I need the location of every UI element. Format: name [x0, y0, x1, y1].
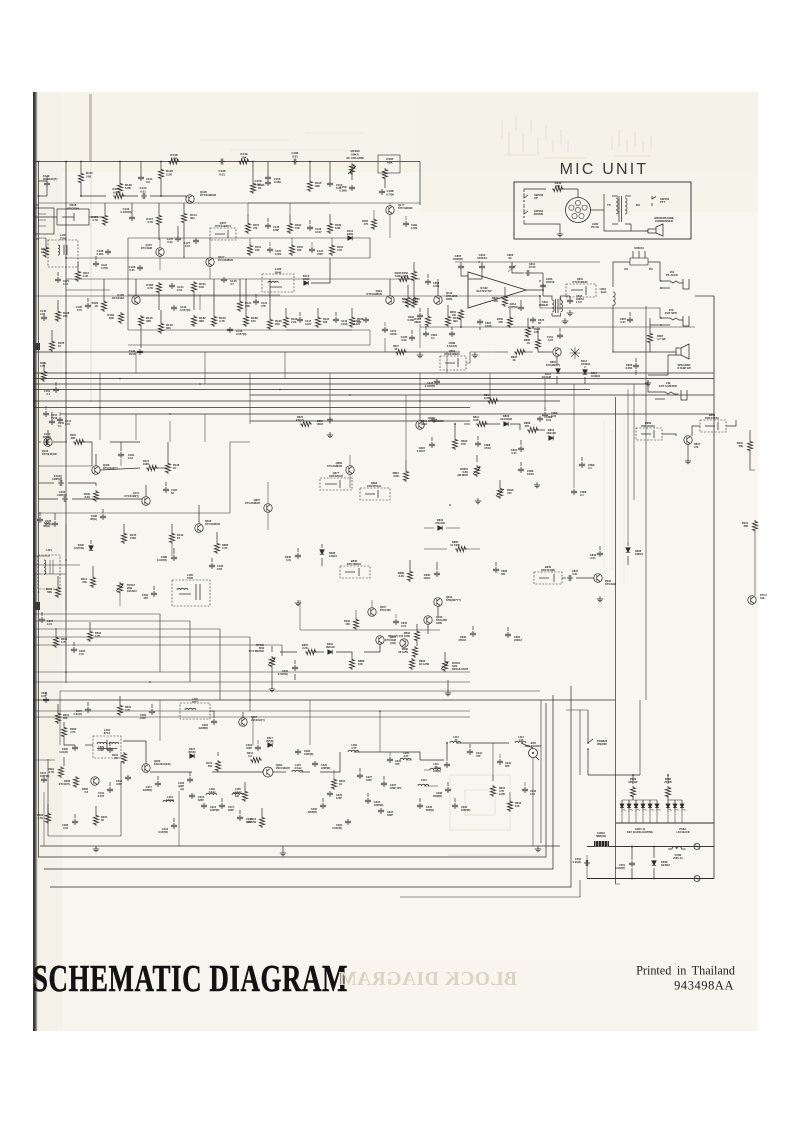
wire led feed [588, 774, 640, 776]
wire horizontal bus line y395 [250, 394, 714, 396]
capacitor C138 0.001 [105, 249, 111, 255]
svg-text:C4286P(H): C4286P(H) [45, 520, 52, 526]
wire rf in [45, 692, 47, 696]
resistor R313 120 [242, 790, 247, 802]
trimmer RV401 FM DEV [117, 582, 122, 594]
svg-text:L1065846: L1065846 [275, 267, 282, 274]
resistor R805 1K [514, 349, 526, 354]
box B809 KRC114S dashed [636, 428, 662, 440]
svg-text:C839470/16: C839470/16 [458, 635, 466, 642]
wire lower bus 2 [34, 681, 470, 683]
resistor R304b 4.7K [53, 636, 58, 648]
wire staircase bus 4 [34, 637, 250, 711]
capacitor C842 0.01 [597, 551, 603, 557]
svg-text:C316620P: C316620P [198, 796, 205, 802]
diode D800 A1244GR [504, 422, 508, 426]
svg-text:D1111N60: D1111N60 [347, 229, 354, 236]
wire nested outline 4 [400, 880, 580, 897]
transistor Q815 KTA1266 tx [368, 608, 376, 616]
ground rf chain [535, 846, 541, 852]
wire top extra drops [119, 162, 121, 183]
wire am mod mesh [419, 414, 421, 421]
wire left edge parts [51, 330, 53, 340]
svg-text:L4065796: L4065796 [187, 573, 194, 580]
capacitor C410 10/16 [43, 411, 49, 417]
connector J106 PLUG [566, 198, 591, 223]
capacitor C154 0.01 [557, 333, 563, 339]
wire row4 bus [34, 351, 460, 353]
wire nested outline 3 [50, 686, 571, 887]
capacitor C126 0.047 [307, 225, 313, 231]
svg-text:R3094.7K: R3094.7K [37, 814, 44, 820]
inductor L302 8771 dashed [180, 703, 210, 719]
resistor R310 100 [121, 752, 126, 764]
resistor R808 47K [527, 427, 539, 432]
wire horizontal bus line y421 [250, 420, 470, 422]
wire power box inner vertical [579, 710, 581, 775]
svg-text:C1470.047: C1470.047 [305, 319, 312, 326]
svg-text:C1360.01: C1360.01 [218, 169, 226, 176]
wire tx s meter mesh [271, 668, 273, 686]
inductor L313 1.5T [515, 741, 526, 743]
wire rf long rows [59, 691, 61, 745]
resistor R486 22 1W [665, 786, 670, 798]
capacitor C838 16/16 [518, 467, 524, 473]
wire opamp out [526, 289, 543, 291]
resistor R167 68K [382, 168, 387, 180]
capacitor C122 4.7/50 [93, 261, 99, 267]
resistor R118 2.2K [75, 270, 80, 282]
inductor L307 [292, 770, 303, 772]
wire rf enclosure right edge [540, 700, 542, 843]
capacitor C502 0.01(D) [584, 860, 590, 866]
wire power bottom mesh [631, 847, 633, 861]
capacitor C152 0.1 [53, 387, 59, 393]
capacitor C333 330P(D) [378, 808, 384, 814]
box Q811 KTC3198 dashed [566, 284, 596, 297]
diode D112 1N4148 [556, 369, 560, 373]
capacitor C481 47P [151, 591, 157, 597]
resistor R187 4.7K [102, 214, 107, 226]
capacitor C304 220P [211, 719, 217, 725]
capacitor C839 470/16 [470, 631, 476, 637]
svg-text:C81147/16: C81147/16 [529, 262, 536, 269]
capacitor C131 47P [253, 299, 259, 305]
ground opamp input [417, 352, 423, 358]
wire row3 extra [103, 279, 105, 300]
node junction on top bus [65, 161, 67, 163]
resistor R232 15K [353, 618, 358, 630]
resistor R729 820 1W [630, 786, 635, 798]
resistor R180 15K [405, 296, 410, 308]
transistor Q408 KTC3194 [92, 466, 100, 474]
wire left mid parts [39, 512, 41, 516]
svg-text:L3094.5T: L3094.5T [403, 752, 409, 758]
wire staircase bus 2 [34, 621, 190, 682]
svg-text:TX: TX [607, 203, 611, 207]
wire horizontal bus line y373 [34, 372, 714, 374]
capacitor C139 input [44, 181, 50, 187]
capacitor C141 0.01 [169, 283, 175, 289]
resistor R807 4.7 1W [647, 332, 652, 344]
transistor Q102 KTC3198 [156, 248, 164, 256]
capacitor C314 0.047(D) [171, 823, 177, 829]
svg-text:C41010/16: C41010/16 [51, 414, 58, 420]
svg-text:SCHEMATIC DIAGRAM: SCHEMATIC DIAGRAM [33, 957, 348, 1000]
capacitor C312 100P [125, 775, 131, 781]
transistor Q104 KTC3198GR [186, 195, 194, 203]
resistor R311 560 [215, 760, 220, 772]
resistor R115 10K [78, 172, 83, 184]
capacitor C403 100P(D) [62, 496, 68, 502]
svg-text:R1474.7K: R1474.7K [146, 217, 153, 224]
svg-text:R1626.2K: R1626.2K [402, 271, 409, 278]
wire mid-right mesh [662, 434, 676, 436]
transistor Q813 KTA1266 [424, 616, 432, 624]
svg-text:C8: C8 [624, 267, 628, 271]
ground am mod cluster [534, 482, 540, 488]
resistor R120 4.7K [211, 315, 216, 327]
capacitor C422 6P [52, 521, 58, 527]
inductor L406 5796 shield box [172, 580, 210, 606]
capacitor C322 330P [237, 815, 243, 821]
capacitor C341 47P [467, 749, 473, 755]
svg-text:L310: L310 [421, 779, 427, 782]
wire bus vertical drops [99, 373, 101, 440]
wire rf row mid [34, 759, 55, 761]
resistor R301 56K [55, 712, 60, 724]
ghost bleed-through marks above MIC UNIT [502, 116, 651, 158]
inductor CH501 5RR36 [594, 841, 609, 847]
capacitor C328 100P(D) [295, 749, 301, 755]
svg-text:C1540.01: C1540.01 [547, 335, 554, 342]
transistor Q106 KTC3194 [132, 296, 140, 304]
resistor R816 6.8K [403, 470, 408, 482]
capacitor C484 0.01 [118, 452, 124, 458]
transistor Q302 [91, 777, 99, 785]
box Q802 KTC3198 dashed [440, 356, 466, 370]
wire meter driver mesh [446, 527, 460, 529]
wire second left vertical rail [65, 162, 67, 684]
svg-text:MICROPHONECONDENSER: MICROPHONECONDENSER [654, 216, 673, 223]
capacitor C834 220/16 [505, 632, 511, 638]
capacitor C806 0.001 [425, 279, 431, 285]
capacitor C337 220P 1KV [381, 781, 387, 787]
resistor R804 100 [458, 309, 463, 321]
svg-text:L3070.5uH: L3070.5uH [295, 764, 302, 770]
wire second row [89, 216, 105, 218]
transistor Q809 KTC3198 [346, 466, 354, 474]
microphone condenser symbol [645, 224, 663, 236]
capacitor C803 0.068 [417, 313, 423, 319]
wire led cathode rail [616, 822, 714, 824]
switch POWER ON/OFF [588, 738, 593, 753]
wire bottom power rail [587, 846, 714, 848]
capacitor C501 0.022(D) [629, 861, 635, 867]
svg-text:R1684.7K: R1684.7K [146, 283, 153, 290]
wire right column [613, 262, 630, 287]
transistor Q834 KTC3198GR [416, 421, 424, 429]
svg-text:C80410/16: C80410/16 [421, 419, 428, 426]
capacitor C137 0.01 [175, 236, 181, 242]
svg-text:C83616/16: C83616/16 [424, 573, 431, 580]
ghost vertical band mid right [604, 415, 624, 600]
capacitor C807 220P(D) [458, 264, 464, 270]
resistor R829 15K [502, 295, 507, 307]
scan crease line near left [89, 94, 92, 162]
resistor R814 6.8K [487, 398, 499, 403]
box MIC UNIT enclosure [514, 182, 691, 239]
wire opamp top rail [455, 261, 600, 263]
connector SV8013 C8-PA [630, 258, 648, 265]
inductor L311 3T [430, 768, 441, 770]
capacitor C147 0.047 [297, 317, 303, 323]
svg-text:D307BP(D): D307BP(D) [189, 748, 196, 754]
resistor R144 390 [181, 212, 186, 224]
svg-text:SW104DOWN: SW104DOWN [534, 209, 544, 216]
capacitor C897 0.0047 [429, 442, 435, 448]
capacitor C135 0.01 [409, 335, 415, 341]
svg-text:R15915K: R15915K [497, 317, 504, 324]
transformer T801 300B45 [556, 299, 559, 313]
wire left feed bus 2 [34, 564, 80, 566]
resistor R186 100 [349, 316, 354, 328]
wire upper-middle mesh [559, 328, 561, 332]
capacitor C438 0.047(D) [434, 379, 440, 385]
resistor R126 6.8K [113, 193, 125, 198]
resistor R163 390 [445, 315, 450, 327]
resistor R145 33K [138, 315, 143, 327]
svg-text:BLOCK DIAGRAM: BLOCK DIAGRAM [338, 969, 517, 990]
capacitor C809 0.1 [579, 462, 585, 468]
ground c884 [327, 432, 333, 438]
svg-text:R310100: R310100 [112, 754, 119, 760]
svg-text:D1101N60: D1101N60 [303, 274, 310, 281]
wire q104 links [120, 195, 138, 197]
svg-text:C1260.047: C1260.047 [315, 227, 322, 234]
svg-text:R8872.2K: R8872.2K [302, 643, 309, 650]
inductor L309 4.5T [400, 758, 411, 760]
resistor R304 4.7K [58, 766, 63, 778]
resistor R888 10K [349, 658, 354, 670]
wire rf bottom rail [40, 845, 560, 847]
resistor R413 56K [55, 586, 60, 598]
capacitor C127 0.01 [193, 238, 199, 244]
svg-text:C130100P: C130100P [273, 225, 280, 232]
transformer T101 mic [619, 196, 622, 222]
wire mid right rows [562, 577, 566, 579]
wire right rail top stub [695, 295, 714, 297]
svg-text:C327100P: C327100P [366, 776, 373, 782]
diode D405 10V zener [89, 546, 93, 550]
svg-text:C1500.022: C1500.022 [354, 320, 361, 326]
svg-text:C14310/16: C14310/16 [341, 319, 348, 326]
capacitor C428 6P [37, 517, 43, 523]
svg-text:C1290.01: C1290.01 [76, 305, 83, 312]
box B840 KRC113M dashed [534, 572, 562, 584]
capacitor C128 0.01 [137, 265, 143, 271]
svg-text:R8166.8K: R8166.8K [393, 471, 400, 478]
svg-text:L3131.5T: L3131.5T [518, 736, 524, 742]
resistor R168 4.7K [156, 282, 161, 294]
wire power-section left vertical [615, 397, 617, 884]
wire bottom power return rail [587, 878, 714, 880]
svg-text:R8116.8K: R8116.8K [473, 415, 480, 422]
diode D501 1N4004 [652, 861, 656, 865]
wire mid vertical x634 [633, 384, 635, 500]
svg-text:D31?BP(D): D31?BP(D) [267, 737, 274, 743]
box Q896 KRC125GO dashed [320, 478, 352, 490]
resistor R887 2.2K [305, 649, 317, 654]
speaker SP 8 OHM 1W [676, 344, 689, 359]
svg-text:C322330P: C322330P [246, 818, 253, 824]
resistor R152 33K [289, 244, 294, 256]
diode D816 1N4148 [438, 526, 442, 530]
wire rf row top [63, 722, 65, 726]
transistor Q301 2SC2314 [239, 718, 247, 726]
svg-text:C312100P: C312100P [116, 780, 123, 786]
resistor R303 4.7K [61, 726, 66, 738]
resistor R836 68 1/2W [412, 646, 417, 658]
resistor R133 2.2K [283, 316, 288, 328]
trimmer RV203 1KB REGULATOR [442, 660, 447, 672]
svg-text:L302877?: L302877? [192, 698, 198, 704]
box B841 KRC12BGO dashed [340, 566, 370, 578]
svg-text:C8050.001: C8050.001 [626, 363, 633, 370]
diode D201 1N4148 [328, 650, 332, 654]
wire q801 mesh [538, 350, 552, 352]
capacitor C806 62 [509, 264, 515, 270]
wire left vertical rail [38, 162, 40, 858]
svg-text:C88410/16: C88410/16 [317, 419, 324, 426]
resistor R146 2.2K [158, 168, 163, 180]
wire staircase bus 3 [34, 629, 220, 700]
resistor R134 560 [315, 316, 320, 328]
wire horizontal bus line y384 [34, 383, 648, 385]
capacitor C412 0.01 [57, 417, 63, 423]
capacitor C830 561 [493, 567, 499, 573]
capacitor C327 100P [357, 773, 363, 779]
resistor R886 8.2K [407, 570, 412, 582]
transistor Q303 ESC2314 [142, 764, 150, 772]
wire q108 mesh [389, 203, 391, 206]
resistor R813 470 [497, 487, 502, 499]
capacitor C156 0.068 [265, 175, 271, 181]
svg-text:L401: L401 [46, 549, 52, 552]
ghost mirrored BLOCK DIAGRAM [338, 969, 517, 990]
svg-text:R8146.8K: R8146.8K [484, 393, 491, 400]
svg-text:R231680: R231680 [742, 521, 749, 528]
svg-text:R41410K: R41410K [81, 577, 88, 584]
svg-text:C1350.01: C1350.01 [401, 335, 408, 342]
coil L401 core [38, 555, 60, 589]
capacitor C121 0.01 [55, 277, 61, 283]
resistor R833 1K 1/2W [409, 658, 414, 670]
svg-text:R4098.2K: R4098.2K [84, 492, 91, 499]
wire lower bus 3 [34, 699, 615, 701]
inductor L104 2768 shield box [48, 240, 78, 267]
capacitor C807 0.01 [627, 317, 633, 323]
resistor R131 33K [237, 300, 242, 312]
resistor R433 68K [552, 186, 564, 191]
resistor R185 470 [371, 218, 376, 230]
inductor L310 2T [418, 784, 429, 786]
capacitor C317 620P [219, 803, 225, 809]
wire regulator mesh [437, 606, 439, 616]
wire staircase bus 1 [34, 614, 160, 672]
resistor R416 1K [169, 532, 174, 544]
capacitor C804 10/16 [431, 417, 437, 423]
wire topleft gap mesh [45, 238, 47, 246]
svg-text:C317620P: C317620P [228, 806, 235, 812]
resistor R184 6.8K [398, 276, 410, 281]
trimmer RV202 TX S METER [269, 656, 274, 668]
capacitor C188 [379, 189, 385, 195]
inductor L106 5846 shield box [262, 274, 294, 292]
svg-text:R82915K: R82915K [492, 296, 499, 303]
capacitor C318 330P [187, 777, 193, 783]
wire horizontal bus line y407.5 [34, 407, 470, 409]
transistor Q202 KTC3198 [376, 636, 384, 644]
capacitor C136 on top bus [219, 159, 225, 165]
ground regulator [445, 690, 451, 696]
capacitor C302 0.01 [43, 697, 49, 703]
capacitor C487 62 [163, 487, 169, 493]
capacitor C488 0.047(D) [171, 555, 177, 561]
resistor R188 100 [243, 315, 248, 327]
resistor R418 1K [165, 462, 170, 474]
svg-text:C48147P: C48147P [142, 593, 149, 600]
wire row2 extra [247, 214, 249, 222]
wire mid-right vertical rail [645, 306, 647, 700]
resistor R160 10K [525, 326, 530, 338]
svg-text:KTC3(?): KTC3(?) [388, 634, 398, 638]
transistor Q108 KTC3198 [386, 206, 394, 214]
capacitor C306 0.01 [71, 647, 77, 653]
resistor R415 100K [121, 532, 126, 544]
capacitor C140 0.047(D) [227, 327, 233, 333]
wire q815 mesh [371, 600, 373, 608]
svg-text:943498AA: 943498AA [674, 979, 734, 993]
capacitor C153 5.1 [49, 419, 55, 425]
capacitor C159 [349, 185, 355, 191]
svg-text:C3080.01: C3080.01 [62, 824, 69, 830]
wire volume feed [351, 166, 353, 180]
capacitor C130 100P [265, 223, 271, 229]
capacitor C142 0.047(D) [171, 305, 177, 311]
svg-text:C1380.001: C1380.001 [97, 249, 104, 256]
resistor R183 1K [250, 182, 255, 194]
inductor L305 1.2uH [232, 793, 243, 795]
svg-text:SV8013: SV8013 [634, 246, 644, 250]
svg-text:C8970.0047: C8970.0047 [417, 446, 426, 453]
resistor R151 10K [247, 244, 252, 256]
resistor R303c [395, 349, 407, 354]
svg-text:C333330P: C333330P [387, 811, 394, 817]
capacitor C303 100P [149, 709, 155, 715]
wire horizontal bus line y414 [60, 413, 714, 415]
svg-text:C83816/16: C83816/16 [527, 469, 534, 476]
inductor L303 8774 shield [93, 736, 121, 758]
trimmer RV801 AM MOD [474, 465, 479, 477]
wire rf extra [217, 752, 219, 756]
resistor R153 4.7K [329, 244, 334, 256]
capacitor C148 0.01 [41, 315, 47, 321]
svg-text:PA: PA [649, 267, 653, 271]
transistor Q304 2SC1969 [263, 767, 273, 777]
svg-text:R185470: R185470 [362, 220, 369, 226]
svg-text:R1486.8K: R1486.8K [170, 153, 178, 160]
